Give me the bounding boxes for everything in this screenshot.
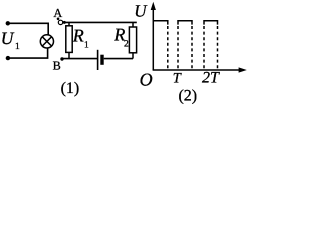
battery: long plate	[97, 50, 99, 70]
pulse 1	[153, 21, 168, 70]
svg-text:1: 1	[15, 42, 20, 52]
wire top rail from A to R2 top	[63, 21, 137, 23]
terminal bottom-left of U1	[6, 56, 10, 60]
svg-text:R: R	[72, 25, 84, 45]
wire bottom rail battery to R2 bottom	[104, 58, 133, 60]
svg-text:U: U	[1, 28, 15, 48]
svg-text:2: 2	[124, 40, 129, 50]
wire lamp bottom to bottom rail	[8, 48, 48, 58]
wire top from terminal to lamp corner	[8, 23, 48, 35]
axis t horizontal with arrowhead	[153, 69, 241, 71]
wire bottom rail B to battery	[62, 58, 98, 60]
pulse 3	[204, 21, 218, 70]
lamp (circle with X)	[40, 35, 53, 48]
node A open circle terminal	[58, 20, 62, 24]
svg-text:(2): (2)	[178, 87, 197, 104]
resistor R2	[129, 22, 136, 58]
svg-text:O: O	[140, 69, 153, 89]
svg-text:U: U	[134, 1, 148, 20]
node A dot	[57, 18, 60, 21]
junction dot right of A	[63, 21, 66, 24]
terminal top-left of U1	[6, 21, 10, 25]
resistor R1	[66, 22, 72, 58]
svg-text:T: T	[173, 71, 182, 87]
battery: short thick plate	[100, 55, 103, 65]
svg-text:(1): (1)	[61, 80, 80, 97]
svg-text:B: B	[53, 59, 61, 73]
axis U vertical with arrowhead	[152, 8, 154, 70]
pulse 2	[178, 21, 192, 70]
svg-text:1: 1	[84, 41, 89, 51]
node B dot	[60, 57, 63, 60]
svg-text:2T: 2T	[202, 70, 220, 87]
